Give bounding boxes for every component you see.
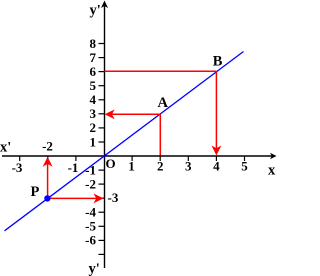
svg-text:x: x: [268, 163, 276, 179]
svg-text:3: 3: [185, 159, 192, 174]
svg-text:8: 8: [90, 36, 97, 51]
svg-text:1: 1: [90, 134, 97, 149]
svg-text:-3: -3: [12, 160, 23, 175]
y-axis arrowhead (top): [101, 1, 108, 9]
svg-text:-4: -4: [85, 205, 96, 220]
svg-text:3: 3: [90, 106, 97, 121]
blue line y = 1.5x: [5, 52, 244, 231]
svg-text:2: 2: [90, 120, 97, 135]
red segment y=6 from axis to B: [105, 70, 217, 72]
svg-text:4: 4: [213, 159, 220, 174]
svg-text:4: 4: [90, 92, 97, 107]
svg-text:5: 5: [241, 159, 248, 174]
red segment from A down to x-axis: [159, 114, 161, 155]
svg-text:-2: -2: [42, 139, 53, 154]
svg-text:A: A: [158, 95, 169, 111]
x-axis arrowhead (right): [270, 153, 277, 159]
svg-text:-6: -6: [85, 233, 96, 248]
x-axis ticks: [20, 156, 245, 161]
svg-text:-5: -5: [85, 219, 96, 234]
svg-text:6: 6: [90, 64, 97, 79]
svg-text:y': y': [90, 3, 101, 19]
y-axis ticks: [99, 44, 105, 255]
red segment from A left to y-axis with left arrow: [112, 113, 160, 115]
point P dot: [44, 195, 50, 201]
svg-text:x': x': [0, 140, 11, 156]
svg-text:-1: -1: [68, 160, 79, 175]
svg-text:O: O: [105, 156, 115, 171]
svg-text:7: 7: [90, 50, 97, 65]
svg-text:5: 5: [90, 78, 97, 93]
svg-text:y': y': [89, 261, 100, 276]
y-axis: [104, 4, 106, 268]
svg-text:2: 2: [157, 159, 164, 174]
svg-text:P: P: [31, 184, 40, 200]
svg-text:1: 1: [128, 159, 135, 174]
red segment from B down to x-axis with down arrow: [215, 71, 217, 149]
svg-text:-2: -2: [85, 176, 96, 191]
x-axis: [2, 155, 272, 157]
svg-text:-1: -1: [85, 162, 96, 177]
svg-text:-3: -3: [108, 190, 119, 205]
red arrow from P right to y-axis: [48, 197, 97, 199]
red arrow from P up to x-axis: [47, 163, 49, 198]
svg-text:B: B: [213, 53, 223, 69]
